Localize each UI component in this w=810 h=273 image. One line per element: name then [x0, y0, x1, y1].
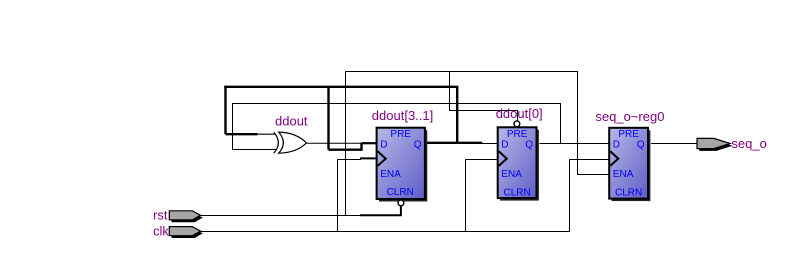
input pin rst shadow	[172, 213, 203, 222]
svg-text:D: D	[501, 140, 508, 151]
svg-text:ENA: ENA	[613, 169, 634, 180]
svg-text:ENA: ENA	[380, 169, 401, 180]
flip-flop U3 seq_o~reg0 shadow	[612, 130, 651, 201]
wire: vertical x=465.4 clk FF2 riser	[465, 159, 467, 232]
input pin clk shadow	[172, 229, 203, 238]
wire: xor input A thin segment y=134.2	[258, 133, 277, 135]
wire: PRE horizontal y=110.6	[449, 110, 518, 112]
xor gate ddout	[274, 132, 307, 153]
wire: vertical x=577.4 ENA drop	[577, 71, 579, 175]
output pin seq_o shadow	[699, 141, 732, 151]
svg-text:PRE: PRE	[618, 129, 639, 140]
svg-text:CLRN: CLRN	[615, 187, 642, 198]
wire: bus Q FF1 y=142.8 (thick)	[425, 142, 482, 144]
flip-flop U2 pin labels	[501, 129, 533, 198]
svg-text:ENA: ENA	[501, 169, 522, 180]
wire: vertical x=337.4 clk FF1 riser	[337, 159, 339, 232]
svg-text:D: D	[613, 140, 620, 151]
wire: bus xor-A horizontal y=134.2 (thick)	[226, 133, 258, 135]
flip-flop U2 PRE bubble	[514, 121, 520, 127]
wire: vertical x=232.5 to xor input B	[232, 103, 234, 150]
svg-text:rst: rst	[153, 208, 168, 223]
output pin seq_o	[697, 138, 730, 148]
wire: clk FF1 thin y=159.2	[337, 159, 361, 161]
svg-text:Q: Q	[525, 140, 533, 151]
svg-text:Q: Q	[414, 140, 422, 151]
wire: vertical x=569.9 clk FF3 riser	[569, 159, 571, 232]
wire: bus vertical x=457.2 (thick)	[456, 86, 458, 143]
wire: xor output y=142.9	[306, 142, 361, 144]
wire: vertical x=449.2 PRE drop	[449, 71, 451, 111]
svg-text:Q: Q	[637, 140, 645, 151]
wire: net rst->top distribution, horizontal y=71.7	[345, 71, 578, 73]
flip-flop U2 ddout[0] body	[498, 127, 537, 198]
wire: rst thick segment to CLRN bubble	[360, 214, 402, 216]
wire: bus vertical x=225.5 (thick)	[224, 86, 226, 134]
svg-text:ddout[3..1]: ddout[3..1]	[372, 108, 433, 123]
wire: vertical x=560.8 tap from D FF3	[560, 103, 562, 144]
flip-flop U3 pin labels	[613, 129, 645, 198]
wire: bus horizontal y=149.7 (thick)	[329, 148, 362, 150]
flip-flop U2 clock triangle	[499, 151, 507, 166]
svg-text:clk: clk	[153, 224, 169, 239]
wire: Q FF2 to D FF3 y=143.4	[540, 143, 610, 145]
wire: D FF2 thin y=143.7	[482, 143, 498, 145]
wire: bus top horizontal y=86.8 (thick)	[224, 86, 457, 88]
svg-text:seq_o~reg0: seq_o~reg0	[595, 109, 664, 124]
wire: clk FF1 thick into pin	[360, 157, 377, 159]
wire: clk FF2 y=159.5	[465, 159, 498, 161]
wire: Q FF3 to output pin y=143	[651, 143, 698, 145]
wire: vertical x=517.2 into PRE bubble	[517, 110, 519, 121]
svg-text:PRE: PRE	[507, 129, 528, 140]
flip-flop U1 CLRN bubble	[398, 200, 404, 206]
flip-flop U1 ddout[3..1] body	[377, 128, 425, 199]
flip-flop U1 clock triangle	[378, 151, 386, 166]
flip-flop U1 pin labels	[380, 129, 422, 198]
flip-flop U2 ddout[0] shadow	[500, 130, 539, 201]
svg-text:CLRN: CLRN	[387, 187, 414, 198]
wire: bus vertical x=361.5 (thick)	[360, 143, 362, 151]
input pin rst	[169, 211, 200, 220]
wire: bus vertical x=328.5 (thick)	[327, 87, 329, 150]
wire: xor input B horizontal y=149.8	[232, 149, 276, 151]
input pin clk	[169, 227, 200, 236]
flip-flop U1 ddout[3..1] shadow	[379, 130, 427, 201]
wire: rst horizontal y=215.3	[201, 215, 361, 217]
svg-text:D: D	[380, 140, 387, 151]
wire: clk FF3 y=159.2	[569, 159, 609, 161]
svg-text:PRE: PRE	[390, 129, 411, 140]
wire: vertical x=345.2 rst riser	[345, 71, 347, 216]
wire: ddout[0] tap horizontal y=103.9	[232, 103, 561, 105]
flip-flop U3 seq_o~reg0 body	[609, 128, 648, 199]
svg-text:ddout: ddout	[275, 114, 308, 129]
svg-text:ddout[0]: ddout[0]	[496, 106, 543, 121]
wire: vertical x=400.9 up to CLRN bubble	[400, 206, 402, 216]
svg-text:CLRN: CLRN	[503, 187, 530, 198]
flip-flop U3 clock triangle	[610, 151, 618, 166]
svg-text:seq_o: seq_o	[731, 136, 766, 151]
wire: bus D FF1 y=143.2 (thick)	[362, 142, 377, 144]
wire: clk horizontal y=230.9	[201, 231, 571, 233]
wire: ENA FF3 horizontal y=174	[577, 174, 609, 176]
